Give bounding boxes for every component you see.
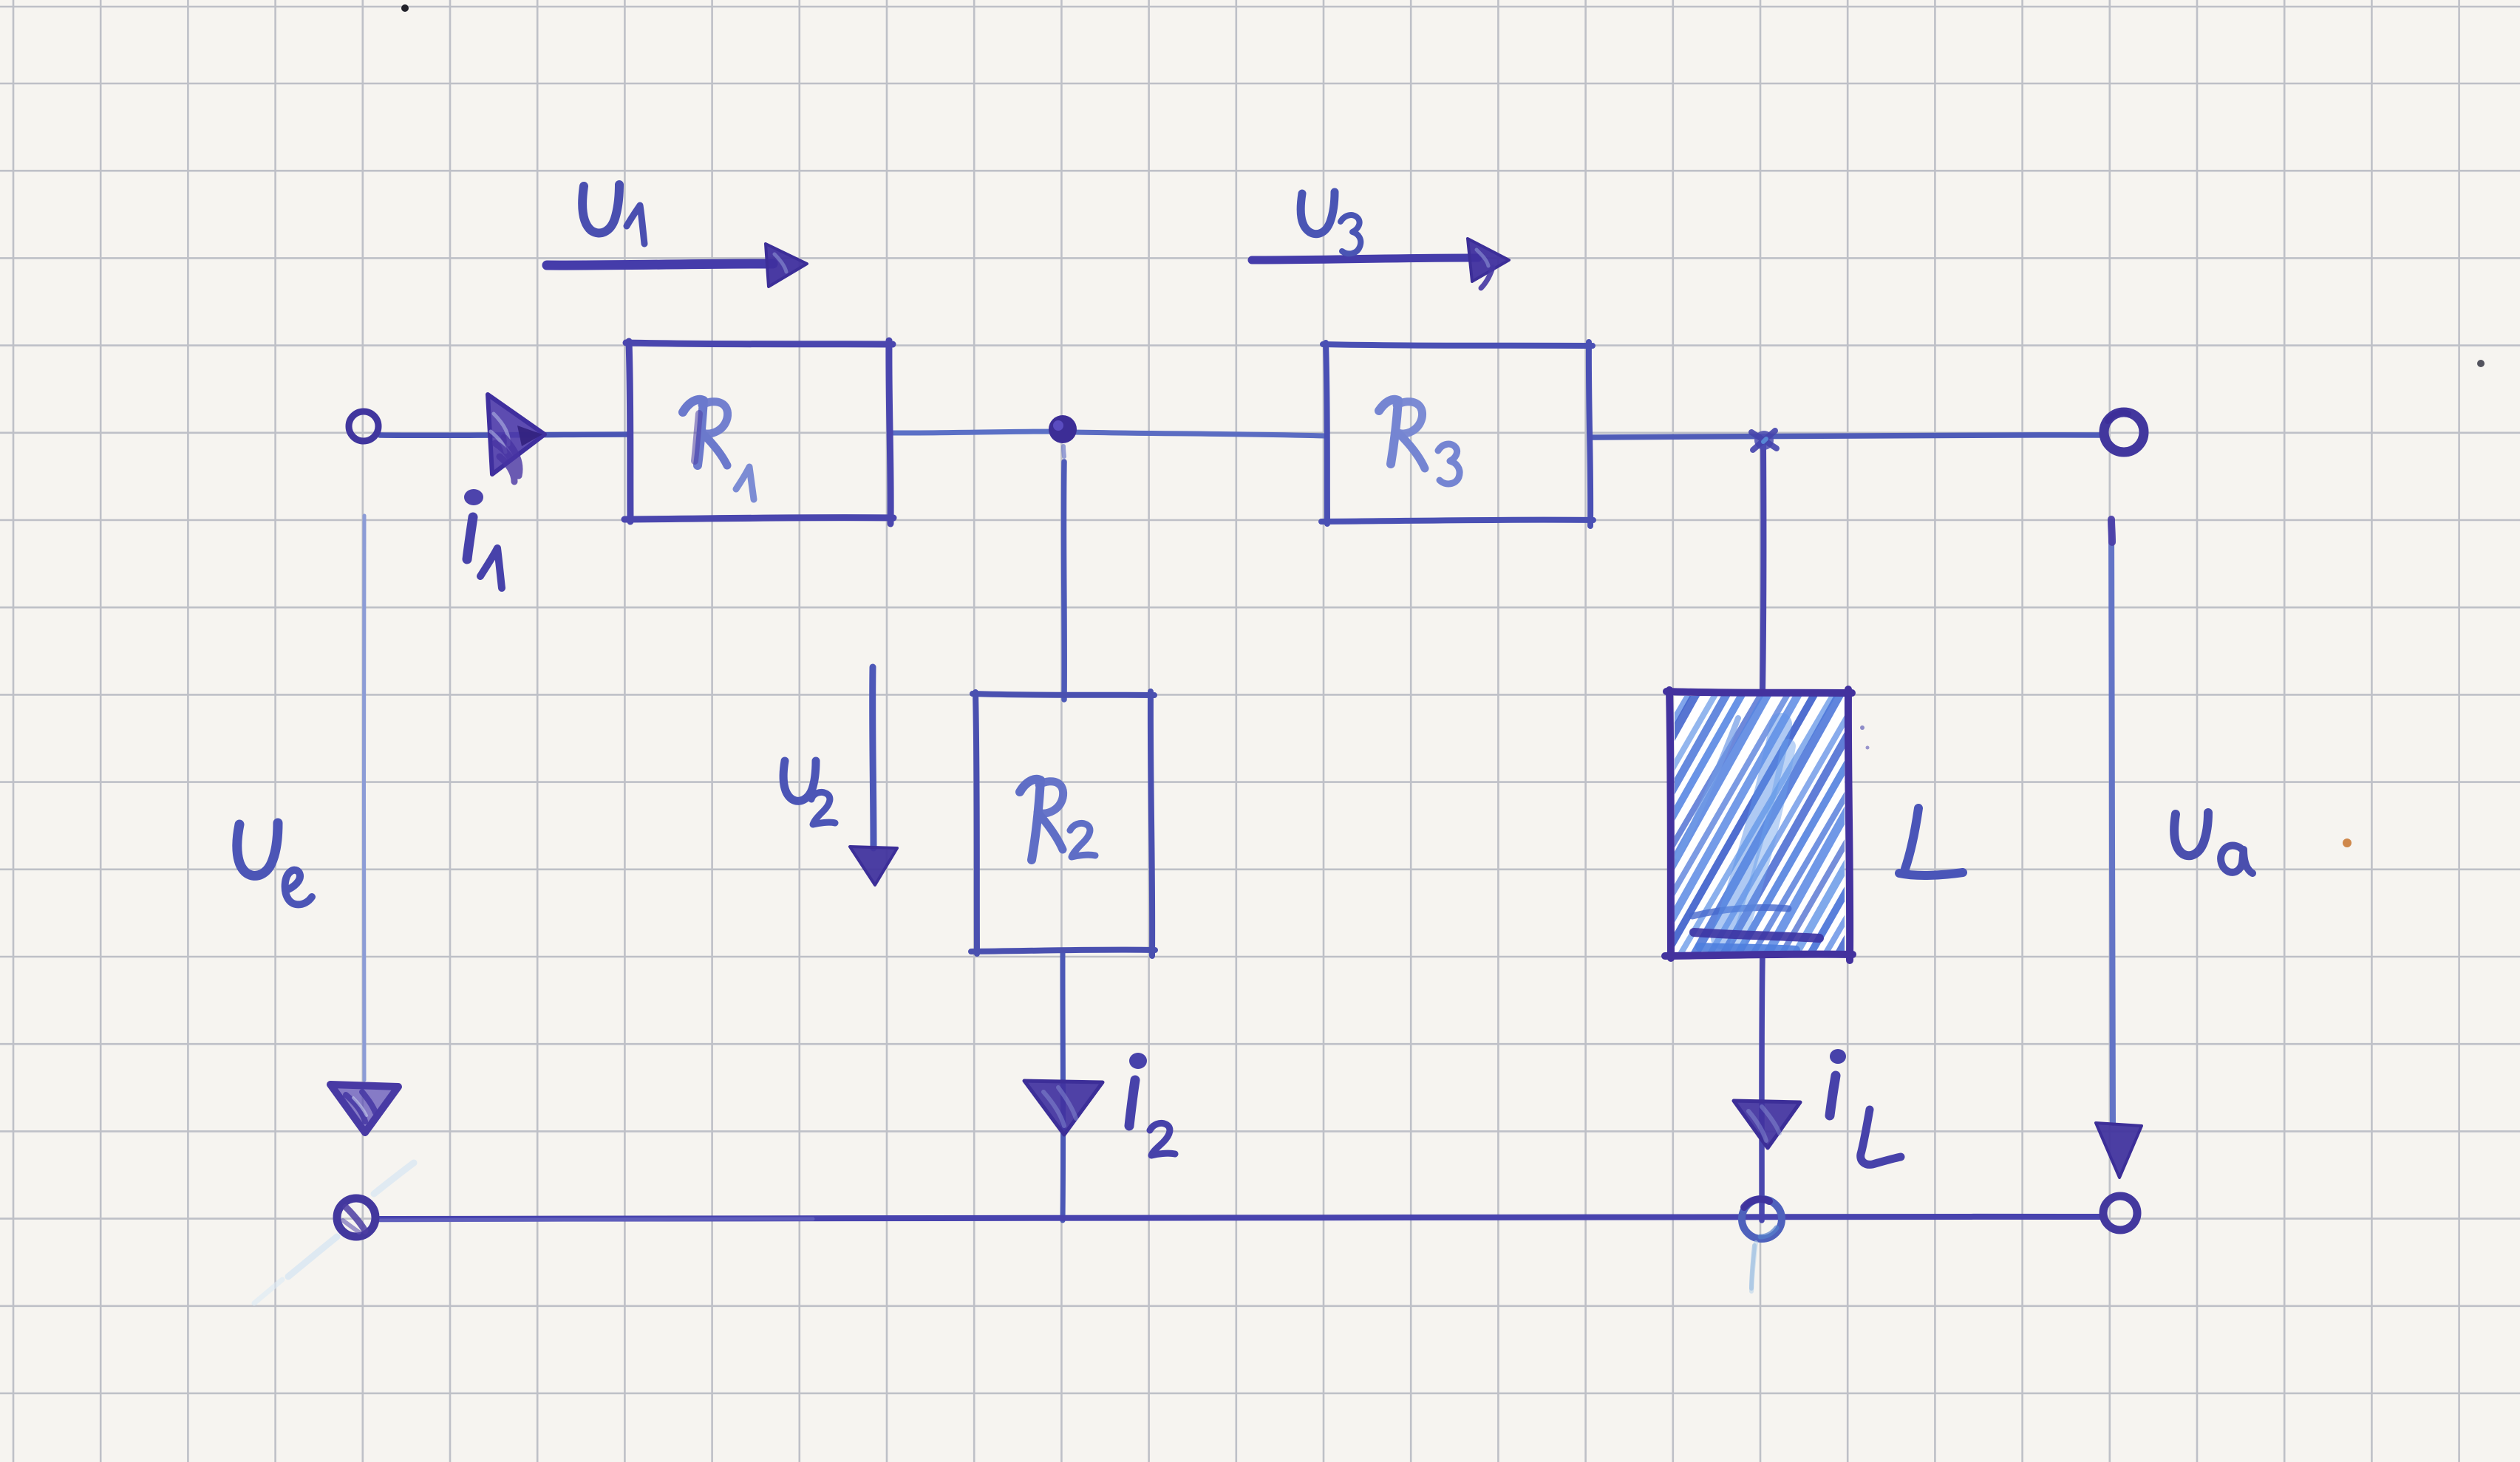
terminal: input top-left (349, 411, 378, 441)
label iL (1830, 1049, 1901, 1164)
wire: node to R3 (1073, 432, 1326, 436)
wire: R3 to output terminal (through L tap) (1590, 435, 2102, 437)
label R2 (1020, 779, 1095, 860)
terminal: output top-right (2104, 412, 2144, 452)
wire: R1 to node (892, 431, 1064, 433)
voltage arrow Ua (2096, 519, 2142, 1178)
node: L tap junction (1751, 431, 1777, 450)
label U2 (783, 761, 835, 824)
wire: bottom rail (376, 1217, 2103, 1220)
label R3 (1379, 400, 1460, 484)
resistor R3 (1321, 342, 1593, 526)
current arrow iL (1734, 1101, 1800, 1148)
label L (1899, 808, 1963, 875)
label U3 (1301, 192, 1361, 253)
voltage arrow U1 (547, 244, 807, 287)
wire: input terminal to R1 (380, 434, 629, 435)
label Ua (2174, 813, 2252, 873)
wire: node down to R2 (1063, 446, 1064, 700)
terminal: input bottom-left (254, 1163, 414, 1303)
label U1 (582, 185, 644, 244)
voltage arrow U2 (850, 667, 897, 885)
terminal: bottom node under L (1742, 1199, 1782, 1291)
wire: L down to bottom rail (1762, 956, 1763, 1220)
node: R1/R2/R3 junction (1049, 415, 1077, 443)
label Ue (237, 823, 312, 904)
voltage arrow U3 (1252, 239, 1509, 288)
wire: L tap down to L (1763, 443, 1763, 693)
label R1 (683, 400, 754, 499)
voltage arrow Ue (330, 516, 398, 1133)
inductor L (hatched box) (1516, 686, 2009, 964)
wire: R2 down to bottom rail (1060, 952, 1066, 1220)
current arrow i1 (on input wire) (488, 394, 545, 482)
current arrow i2 (1024, 1081, 1103, 1135)
label i2 (1129, 1053, 1175, 1155)
terminal: output bottom-right (2103, 1196, 2137, 1230)
resistor R2 (971, 691, 1155, 956)
label i1 (464, 489, 502, 588)
resistor R1 (624, 341, 893, 524)
